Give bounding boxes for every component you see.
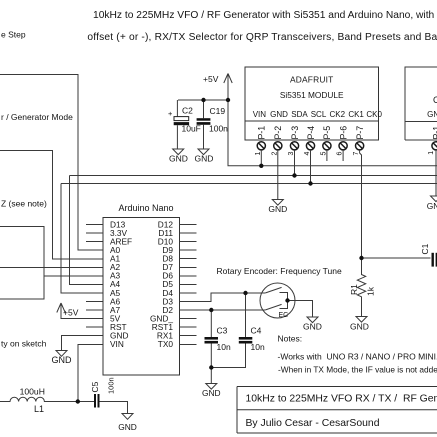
svg-text:EC: EC: [279, 312, 289, 319]
svg-text:GND: GND: [118, 422, 137, 432]
svg-text:GND: GND: [270, 110, 288, 119]
svg-text:P-1: P-1: [257, 126, 267, 140]
svg-text:10kHz to 225MHz VFO RX / TX /: 10kHz to 225MHz VFO RX / TX / RF Generat…: [246, 393, 437, 404]
svg-text:5: 5: [320, 152, 327, 156]
svg-text:Si5351 MODULE: Si5351 MODULE: [280, 90, 344, 100]
svg-text:GND: GND: [52, 355, 73, 365]
svg-text:C19: C19: [210, 106, 226, 116]
svg-text:+5V: +5V: [63, 308, 79, 318]
svg-text:10kHz to 225MHz VFO / RF Gener: 10kHz to 225MHz VFO / RF Generator with …: [93, 10, 435, 21]
svg-text:CK1: CK1: [348, 110, 364, 119]
svg-text:offset (+ or -), RX/TX Selecto: offset (+ or -), RX/TX Selector for QRP …: [87, 32, 437, 43]
svg-text:CK0: CK0: [366, 110, 382, 119]
svg-text:Z (see note): Z (see note): [1, 199, 47, 209]
svg-text:GND: GND: [268, 204, 287, 214]
svg-text:100uH: 100uH: [20, 386, 45, 396]
svg-text:P-6: P-6: [338, 126, 348, 140]
svg-text:P-7: P-7: [355, 126, 365, 140]
svg-text:Rotary Encoder: Frequency Tune: Rotary Encoder: Frequency Tune: [217, 266, 342, 276]
svg-text:7: 7: [353, 152, 360, 156]
svg-text:P-3: P-3: [290, 126, 300, 140]
svg-text:VIN: VIN: [253, 110, 267, 119]
svg-text:C1: C1: [420, 243, 430, 254]
svg-text:C4: C4: [251, 326, 262, 336]
svg-text:Arduino Nano: Arduino Nano: [119, 203, 174, 213]
svg-text:1: 1: [428, 151, 435, 155]
svg-text:10n: 10n: [217, 342, 231, 352]
svg-text:r / Generator Mode: r / Generator Mode: [1, 112, 73, 122]
svg-text:R1: R1: [349, 284, 359, 295]
svg-text:C5: C5: [90, 381, 100, 392]
svg-text:3: 3: [288, 152, 295, 156]
svg-text:GND: GND: [202, 388, 221, 398]
svg-text:6: 6: [337, 152, 344, 156]
svg-text:ADAFRUIT: ADAFRUIT: [290, 74, 333, 84]
svg-text:10n: 10n: [251, 342, 265, 352]
svg-text:-Works with UNO R3 / NANO / P: -Works with UNO R3 / NANO / PRO MINI.: [278, 352, 437, 362]
svg-text:L1: L1: [34, 404, 44, 414]
svg-text:Notes:: Notes:: [278, 334, 303, 344]
svg-text:1: 1: [255, 152, 262, 156]
svg-text:100n: 100n: [209, 124, 228, 134]
svg-text:C3: C3: [217, 326, 228, 336]
svg-text:GND: GND: [169, 154, 188, 164]
svg-text:4: 4: [304, 152, 311, 156]
svg-text:ty on sketch: ty on sketch: [1, 339, 47, 349]
svg-text:C2: C2: [182, 106, 193, 116]
svg-text:P-2: P-2: [273, 126, 283, 140]
svg-text:CK2: CK2: [330, 110, 346, 119]
svg-text:2: 2: [271, 152, 278, 156]
svg-text:SDA: SDA: [291, 110, 308, 119]
svg-text:GND: GND: [303, 322, 322, 332]
svg-text:VIN: VIN: [110, 339, 124, 349]
svg-text:GND: GND: [427, 110, 437, 119]
svg-text:P-5: P-5: [322, 126, 332, 140]
svg-text:-When in TX Mode, the IF value: -When in TX Mode, the IF value is not ad…: [278, 365, 437, 375]
svg-text:+5V: +5V: [203, 74, 219, 84]
svg-text:P-4: P-4: [306, 126, 316, 140]
svg-text:SCL: SCL: [311, 110, 327, 119]
svg-text:P-1: P-1: [431, 126, 437, 140]
svg-text:100n: 100n: [107, 377, 116, 394]
svg-text:C: C: [433, 95, 437, 105]
svg-text:TX0: TX0: [158, 339, 174, 349]
svg-text:GND: GND: [195, 154, 214, 164]
svg-text:1k: 1k: [366, 286, 376, 296]
svg-text:By Julio Cesar - CesarSound: By Julio Cesar - CesarSound: [246, 418, 380, 429]
svg-text:GND: GND: [350, 322, 369, 332]
svg-text:GND: GND: [427, 201, 437, 211]
svg-text:+: +: [168, 109, 173, 118]
svg-text:e Step: e Step: [1, 30, 26, 40]
svg-text:10uF: 10uF: [182, 124, 201, 134]
